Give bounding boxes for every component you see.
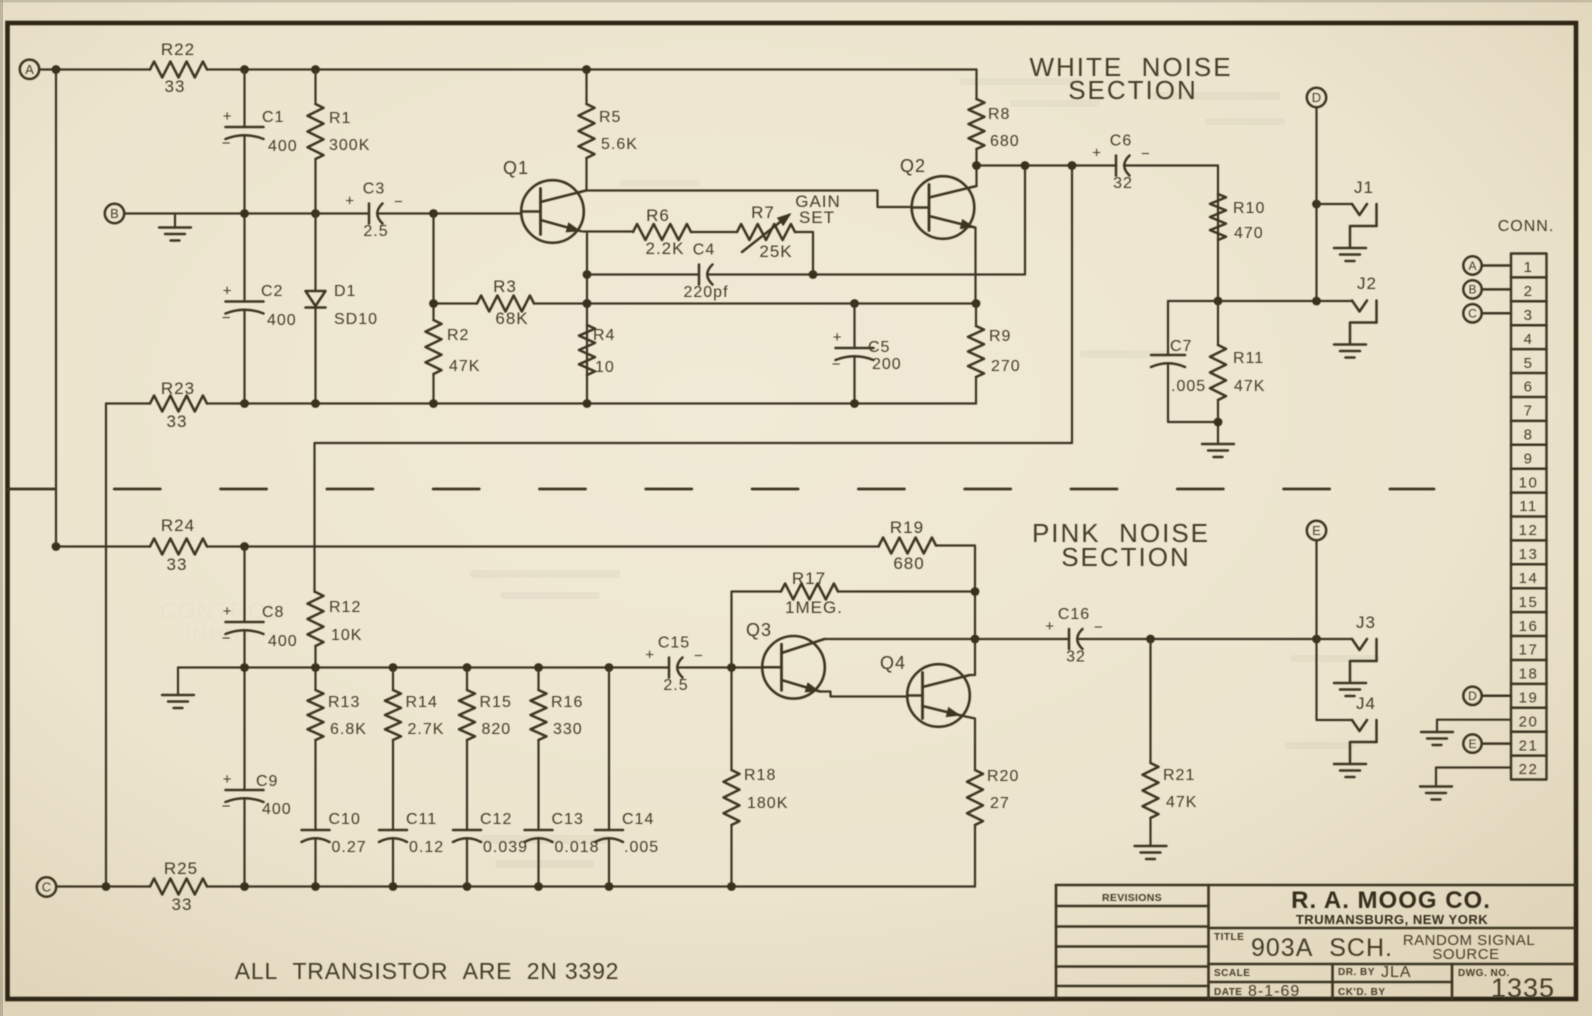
svg-text:DR. BY: DR. BY bbox=[1338, 967, 1375, 978]
wire C12 down bbox=[466, 839, 468, 887]
svg-text:R22: R22 bbox=[161, 40, 195, 59]
svg-text:+: + bbox=[223, 108, 232, 125]
resistor R1 bbox=[308, 104, 371, 159]
wire left rail down bbox=[105, 404, 107, 887]
svg-text:1MEG.: 1MEG. bbox=[785, 598, 843, 617]
svg-text:R4: R4 bbox=[593, 327, 615, 344]
svg-text:SOURCE: SOURCE bbox=[1432, 946, 1499, 963]
capacitor C3 bbox=[345, 181, 403, 241]
svg-text:10: 10 bbox=[595, 359, 615, 376]
wire node A to R22 bbox=[39, 68, 150, 70]
svg-text:C5: C5 bbox=[868, 339, 890, 356]
wire C10 down bbox=[314, 839, 316, 887]
wire R13 to C10 bbox=[314, 740, 316, 830]
svg-text:1335: 1335 bbox=[1491, 973, 1555, 1003]
svg-text:TITLE: TITLE bbox=[1214, 932, 1244, 943]
resistor R16 bbox=[531, 690, 584, 740]
svg-text:R23: R23 bbox=[161, 379, 195, 398]
wire Q1 emitter to R6 bbox=[583, 230, 633, 232]
wire C rail left bbox=[56, 885, 150, 887]
svg-text:+: + bbox=[223, 603, 232, 620]
svg-text:1: 1 bbox=[1524, 259, 1534, 276]
svg-text:R15: R15 bbox=[480, 694, 512, 711]
transistor Q2 bbox=[900, 156, 977, 239]
wire node A down-rail left bbox=[55, 70, 57, 547]
svg-text:−: − bbox=[222, 630, 231, 647]
wire conn row20 to ground bbox=[1437, 720, 1511, 731]
svg-text:C4: C4 bbox=[693, 242, 715, 259]
resistor R2 bbox=[426, 320, 481, 375]
ground bbox=[1420, 787, 1452, 800]
wire Q4 collector up bbox=[970, 639, 975, 675]
junctions: white out node bbox=[972, 161, 1076, 170]
svg-text:C9: C9 bbox=[256, 773, 278, 790]
wire R15 to C12 bbox=[466, 740, 468, 830]
wire R6 to R7 bbox=[691, 231, 737, 233]
resistor R4 bbox=[579, 325, 615, 376]
ground bbox=[1421, 732, 1453, 745]
junctions: Q collector node bbox=[971, 587, 980, 643]
wire R17 right bbox=[838, 590, 975, 592]
svg-text:2.7K: 2.7K bbox=[408, 721, 445, 738]
svg-text:9: 9 bbox=[1524, 450, 1534, 467]
junctions: top rail bbox=[52, 65, 591, 74]
wire to C1 bbox=[243, 70, 245, 128]
svg-text:R10: R10 bbox=[1233, 200, 1265, 217]
wire to R1 bbox=[314, 70, 316, 105]
svg-text:C2: C2 bbox=[261, 283, 283, 300]
wire +V to R5 bbox=[585, 70, 587, 105]
section label PINK NOISE SECTION bbox=[1032, 518, 1210, 572]
svg-text:DATE: DATE bbox=[1214, 987, 1242, 998]
wire R11 to ground bbox=[1217, 400, 1219, 443]
svg-text:REVISIONS: REVISIONS bbox=[1102, 892, 1162, 904]
svg-text:TRUMANSBURG, NEW YORK: TRUMANSBURG, NEW YORK bbox=[1296, 912, 1488, 927]
wire C15 to Q3 base bbox=[677, 666, 762, 668]
resistor R6 bbox=[633, 206, 691, 258]
capacitor C11 bbox=[379, 811, 444, 856]
svg-text:47K: 47K bbox=[1234, 378, 1265, 395]
svg-text:R1: R1 bbox=[329, 110, 351, 127]
svg-text:−: − bbox=[222, 135, 231, 152]
junctions: R3 bias line bbox=[429, 299, 980, 308]
svg-text:E: E bbox=[1468, 737, 1476, 751]
svg-text:820: 820 bbox=[482, 721, 512, 738]
wire R24 rail left bbox=[56, 545, 150, 547]
transistor Q1 bbox=[503, 158, 586, 243]
connector node C bbox=[1463, 304, 1511, 322]
svg-text:D: D bbox=[1312, 90, 1321, 105]
capacitor C7 bbox=[1151, 338, 1206, 395]
resistor R19 bbox=[879, 518, 936, 573]
wire R5 to Q1 collector bbox=[585, 158, 587, 191]
svg-text:6: 6 bbox=[1524, 379, 1534, 396]
wire R1 to D1 bbox=[314, 159, 316, 291]
wire R24 rail bbox=[207, 545, 879, 547]
svg-text:47K: 47K bbox=[449, 358, 480, 375]
wire Q1 emitter down bbox=[586, 232, 588, 404]
svg-text:R7: R7 bbox=[751, 203, 775, 222]
resistor R22 bbox=[150, 40, 207, 96]
wire bus to C14 bbox=[608, 668, 610, 831]
wire conn row22 to ground bbox=[1436, 768, 1511, 786]
wire out node to C6 bbox=[977, 164, 1117, 166]
svg-text:13: 13 bbox=[1519, 546, 1539, 563]
jack J3 bbox=[1334, 613, 1377, 696]
svg-text:A: A bbox=[1468, 259, 1476, 273]
node A bbox=[20, 60, 39, 79]
svg-text:R25: R25 bbox=[164, 859, 198, 878]
svg-text:SCALE: SCALE bbox=[1214, 968, 1250, 979]
wire R3 line right bbox=[534, 302, 976, 304]
resistor R20 bbox=[967, 768, 1019, 825]
svg-text:0.12: 0.12 bbox=[409, 839, 444, 856]
svg-text:6.8K: 6.8K bbox=[330, 721, 367, 738]
svg-text:2.2K: 2.2K bbox=[646, 239, 685, 258]
svg-text:C: C bbox=[1468, 307, 1477, 321]
svg-text:C7: C7 bbox=[1170, 338, 1192, 355]
wire D1 to -V rail bbox=[314, 308, 316, 404]
svg-text:12: 12 bbox=[1519, 522, 1539, 539]
svg-text:680: 680 bbox=[893, 554, 924, 573]
svg-text:19: 19 bbox=[1519, 690, 1539, 707]
junctions: J line bbox=[1214, 200, 1321, 306]
svg-text:8: 8 bbox=[1524, 427, 1534, 444]
svg-text:C11: C11 bbox=[406, 811, 437, 828]
svg-text:CK'D. BY: CK'D. BY bbox=[1338, 987, 1386, 998]
resistor R21 bbox=[1143, 763, 1198, 818]
svg-text:R21: R21 bbox=[1163, 767, 1195, 784]
resistor R3 bbox=[477, 277, 534, 328]
svg-text:C: C bbox=[42, 880, 51, 895]
capacitor C2 bbox=[222, 283, 297, 330]
ground bbox=[1135, 846, 1167, 859]
svg-text:2: 2 bbox=[1524, 283, 1534, 300]
svg-text:27: 27 bbox=[990, 795, 1010, 812]
svg-text:R2: R2 bbox=[447, 327, 469, 344]
junctions: C3 junction bbox=[429, 209, 438, 218]
junctions: pink out line bbox=[1146, 635, 1321, 644]
capacitor C5 bbox=[832, 329, 902, 373]
svg-text:400: 400 bbox=[268, 633, 298, 650]
svg-text:C12: C12 bbox=[480, 811, 512, 828]
wire C1 to C2 bbox=[243, 136, 245, 302]
svg-text:Q3: Q3 bbox=[746, 620, 772, 640]
svg-text:17: 17 bbox=[1519, 642, 1539, 659]
svg-text:33: 33 bbox=[167, 555, 188, 574]
svg-text:180K: 180K bbox=[747, 795, 788, 812]
wire pink bus left bbox=[178, 666, 669, 668]
svg-text:300K: 300K bbox=[329, 137, 370, 154]
wire C rail bbox=[207, 885, 975, 887]
svg-text:R13: R13 bbox=[328, 694, 360, 711]
wire bus to R14 bbox=[392, 668, 394, 691]
svg-text:5: 5 bbox=[1524, 355, 1534, 372]
wire J2 line bbox=[1168, 300, 1352, 302]
capacitor C15 bbox=[645, 635, 703, 695]
wire node B line bbox=[124, 212, 369, 214]
svg-text:−: − bbox=[832, 356, 841, 373]
svg-text:+: + bbox=[833, 329, 842, 346]
jack J1 bbox=[1334, 178, 1377, 261]
wire R16 to C13 bbox=[537, 740, 539, 830]
wire R14 to C11 bbox=[392, 740, 394, 830]
svg-text:+: + bbox=[223, 283, 232, 300]
wire bus to R16 bbox=[537, 668, 539, 691]
svg-text:−: − bbox=[1094, 619, 1103, 636]
svg-text:220pf: 220pf bbox=[683, 284, 728, 301]
resistor R13 bbox=[308, 690, 367, 740]
section label WHITE NOISE SECTION bbox=[1029, 52, 1232, 105]
svg-text:D1: D1 bbox=[334, 283, 356, 300]
resistor R9 bbox=[968, 326, 1021, 377]
svg-text:R18: R18 bbox=[744, 767, 776, 784]
svg-text:4: 4 bbox=[1524, 331, 1534, 348]
svg-text:R17: R17 bbox=[792, 569, 826, 588]
connector node E bbox=[1463, 734, 1511, 752]
node D bbox=[1307, 88, 1326, 107]
svg-text:8-1-69: 8-1-69 bbox=[1248, 983, 1300, 1000]
svg-text:330: 330 bbox=[553, 721, 583, 738]
svg-text:10: 10 bbox=[1519, 474, 1539, 491]
capacitor C9 bbox=[222, 771, 292, 818]
wire C3 to Q1 base bbox=[377, 212, 522, 214]
svg-text:+: + bbox=[1092, 145, 1101, 162]
wire C11 down bbox=[392, 839, 394, 887]
svg-text:16: 16 bbox=[1519, 618, 1539, 635]
wire to R21 bbox=[1149, 639, 1151, 763]
svg-text:.005: .005 bbox=[624, 839, 659, 856]
svg-text:R9: R9 bbox=[989, 328, 1011, 345]
wire C9 down bbox=[243, 799, 245, 887]
svg-text:R14: R14 bbox=[406, 694, 438, 711]
wire C13 down bbox=[537, 839, 539, 887]
dashed section separator bbox=[8, 488, 1434, 491]
junctions: R7 to C4 bbox=[809, 270, 818, 279]
wire ground stub pink bbox=[177, 668, 179, 695]
wire node D down bbox=[1315, 107, 1317, 301]
resistor R5 bbox=[579, 104, 638, 158]
transistor Q4 bbox=[880, 653, 970, 727]
resistor R15 bbox=[459, 690, 512, 740]
svg-text:C3: C3 bbox=[363, 181, 385, 198]
svg-text:400: 400 bbox=[262, 801, 292, 818]
capacitor C8 bbox=[222, 603, 298, 650]
wire R18 down bbox=[730, 825, 732, 887]
svg-text:−: − bbox=[222, 798, 231, 815]
svg-text:JLA: JLA bbox=[1381, 964, 1412, 981]
svg-text:+: + bbox=[1045, 618, 1054, 635]
svg-text:33: 33 bbox=[165, 77, 186, 96]
wire white-out to R12 bbox=[315, 166, 1073, 593]
svg-text:Q2: Q2 bbox=[900, 156, 926, 176]
wire R3 left bbox=[434, 302, 478, 304]
svg-text:J3: J3 bbox=[1356, 613, 1376, 632]
wire to J4 bbox=[1317, 639, 1353, 720]
svg-text:C16: C16 bbox=[1058, 606, 1090, 623]
transistor Q3 bbox=[746, 620, 825, 699]
svg-text:R3: R3 bbox=[493, 277, 517, 296]
title block bbox=[1056, 885, 1576, 999]
wire C4 right up to out node bbox=[707, 166, 1025, 275]
svg-text:3: 3 bbox=[1524, 307, 1534, 324]
wire Q4 emitter down bbox=[961, 716, 975, 771]
wire +V top rail bbox=[207, 68, 977, 70]
potentiometer R7 bbox=[737, 203, 795, 261]
connector node B bbox=[1463, 280, 1511, 298]
wire R7 to C4 line bbox=[795, 232, 813, 275]
svg-text:SD10: SD10 bbox=[334, 311, 378, 328]
svg-text:Q1: Q1 bbox=[503, 158, 529, 178]
svg-text:400: 400 bbox=[268, 138, 298, 155]
svg-text:SECTION: SECTION bbox=[1061, 542, 1191, 572]
svg-text:C1: C1 bbox=[262, 109, 284, 126]
svg-text:−: − bbox=[694, 648, 703, 665]
wire R20 down bbox=[974, 825, 976, 887]
wire C2 to -V rail bbox=[243, 310, 245, 404]
resistor R25 bbox=[150, 859, 207, 914]
svg-text:J2: J2 bbox=[1357, 274, 1377, 293]
wire to R9 bbox=[975, 304, 977, 327]
capacitor C10 bbox=[302, 811, 367, 856]
svg-text:A: A bbox=[25, 62, 34, 77]
svg-text:68K: 68K bbox=[495, 309, 528, 328]
svg-text:B: B bbox=[1468, 283, 1476, 297]
wire R10-R11 bbox=[1217, 301, 1219, 345]
svg-text:R19: R19 bbox=[890, 518, 924, 537]
svg-text:2.5: 2.5 bbox=[363, 223, 388, 240]
wire Q1 collector to Q2 base bbox=[586, 191, 912, 208]
svg-text:C14: C14 bbox=[622, 811, 654, 828]
wire R12 to bus bbox=[314, 646, 316, 668]
svg-text:0.27: 0.27 bbox=[332, 839, 367, 856]
svg-text:−: − bbox=[222, 310, 231, 327]
wire node E down bbox=[1315, 540, 1317, 639]
junctions: Q1 emitter node bbox=[583, 270, 592, 308]
svg-text:20: 20 bbox=[1519, 713, 1539, 730]
resistor R10 bbox=[1210, 194, 1265, 242]
svg-text:10K: 10K bbox=[331, 627, 362, 644]
resistor R17 bbox=[781, 569, 843, 617]
svg-text:R11: R11 bbox=[1233, 350, 1264, 367]
wire C4 left bbox=[587, 273, 699, 275]
svg-text:−: − bbox=[1141, 146, 1150, 163]
svg-text:+: + bbox=[223, 771, 232, 788]
svg-text:25K: 25K bbox=[759, 242, 792, 261]
wire C16 to J3 bbox=[1077, 638, 1352, 640]
svg-text:R5: R5 bbox=[599, 109, 621, 126]
capacitor C1 bbox=[222, 108, 298, 155]
svg-text:R12: R12 bbox=[329, 599, 361, 616]
junctions: node B line bbox=[240, 209, 320, 218]
svg-text:.005: .005 bbox=[1171, 378, 1206, 395]
wire to C7 bbox=[1167, 301, 1169, 355]
svg-text:J4: J4 bbox=[1356, 694, 1376, 713]
wire bus to R13 bbox=[314, 668, 316, 691]
svg-text:22: 22 bbox=[1519, 761, 1539, 778]
junctions: pink bus bbox=[240, 663, 736, 672]
svg-text:18: 18 bbox=[1519, 666, 1539, 683]
resistor R14 bbox=[385, 690, 444, 740]
wire R9 to -V rail bbox=[975, 377, 977, 404]
wire R21 to ground bbox=[1149, 818, 1151, 845]
svg-text:Q4: Q4 bbox=[880, 653, 906, 673]
svg-text:E: E bbox=[1312, 523, 1321, 538]
node E bbox=[1307, 521, 1326, 540]
svg-text:32: 32 bbox=[1066, 649, 1086, 666]
connector node A bbox=[1463, 256, 1511, 274]
svg-text:14: 14 bbox=[1519, 570, 1539, 587]
svg-text:SECTION: SECTION bbox=[1068, 75, 1198, 105]
svg-text:903A SCH.: 903A SCH. bbox=[1251, 934, 1393, 962]
wire to J1 bbox=[1317, 203, 1353, 205]
svg-text:+: + bbox=[345, 193, 354, 210]
svg-text:SET: SET bbox=[799, 208, 835, 227]
svg-text:B: B bbox=[110, 206, 119, 221]
svg-text:270: 270 bbox=[991, 358, 1021, 375]
wire +V to R8 bbox=[975, 70, 977, 100]
node C bbox=[37, 877, 56, 896]
svg-text:15: 15 bbox=[1519, 594, 1539, 611]
svg-text:R8: R8 bbox=[988, 106, 1010, 123]
wire C8 to C9 bbox=[243, 631, 245, 791]
wire C7 bottom bbox=[1168, 364, 1218, 423]
capacitor C4 bbox=[683, 242, 728, 302]
resistor R12 bbox=[308, 592, 363, 646]
svg-text:470: 470 bbox=[1234, 225, 1264, 242]
wire Q3 emitter to Q4 base bbox=[820, 692, 907, 697]
svg-text:C15: C15 bbox=[658, 635, 690, 652]
svg-text:R. A. MOOG CO.: R. A. MOOG CO. bbox=[1291, 887, 1491, 914]
svg-text:C13: C13 bbox=[552, 811, 584, 828]
svg-text:680: 680 bbox=[990, 133, 1020, 150]
wire to C5 bbox=[853, 304, 855, 349]
svg-text:C8: C8 bbox=[262, 604, 284, 621]
junctions: -V rail bbox=[240, 399, 859, 408]
capacitor C13 bbox=[525, 811, 600, 856]
svg-text:R20: R20 bbox=[987, 768, 1019, 785]
svg-text:7: 7 bbox=[1524, 403, 1534, 420]
svg-text:+: + bbox=[645, 647, 654, 664]
capacitor C16 bbox=[1045, 606, 1103, 666]
svg-text:47K: 47K bbox=[1166, 794, 1197, 811]
wire Q2 collector up bbox=[975, 166, 977, 187]
ground bbox=[1202, 444, 1234, 457]
capacitor C14 bbox=[595, 811, 659, 856]
node B bbox=[105, 204, 124, 223]
wire ground stub B bbox=[174, 214, 176, 228]
svg-text:D: D bbox=[1468, 689, 1477, 703]
resistor R8 bbox=[969, 99, 1020, 150]
wire C6 to R10 bbox=[1124, 166, 1218, 302]
svg-text:−: − bbox=[394, 194, 403, 211]
capacitor C12 bbox=[453, 811, 528, 856]
wire down to R2 bbox=[432, 214, 434, 321]
svg-text:J1: J1 bbox=[1354, 178, 1374, 197]
svg-text:R24: R24 bbox=[161, 516, 195, 535]
junctions: R24 rail bbox=[52, 542, 249, 551]
connector CONN. block bbox=[1498, 218, 1555, 780]
diode D1 bbox=[306, 283, 379, 328]
svg-text:32: 32 bbox=[1113, 175, 1133, 192]
jack J4 bbox=[1334, 694, 1377, 777]
wire Q2 emitter down bbox=[974, 228, 976, 304]
svg-text:21: 21 bbox=[1519, 737, 1539, 754]
svg-text:33: 33 bbox=[172, 895, 193, 914]
wire Q3 collector line bbox=[825, 638, 976, 640]
svg-text:R6: R6 bbox=[646, 206, 670, 225]
wire -V rail bbox=[207, 402, 976, 404]
